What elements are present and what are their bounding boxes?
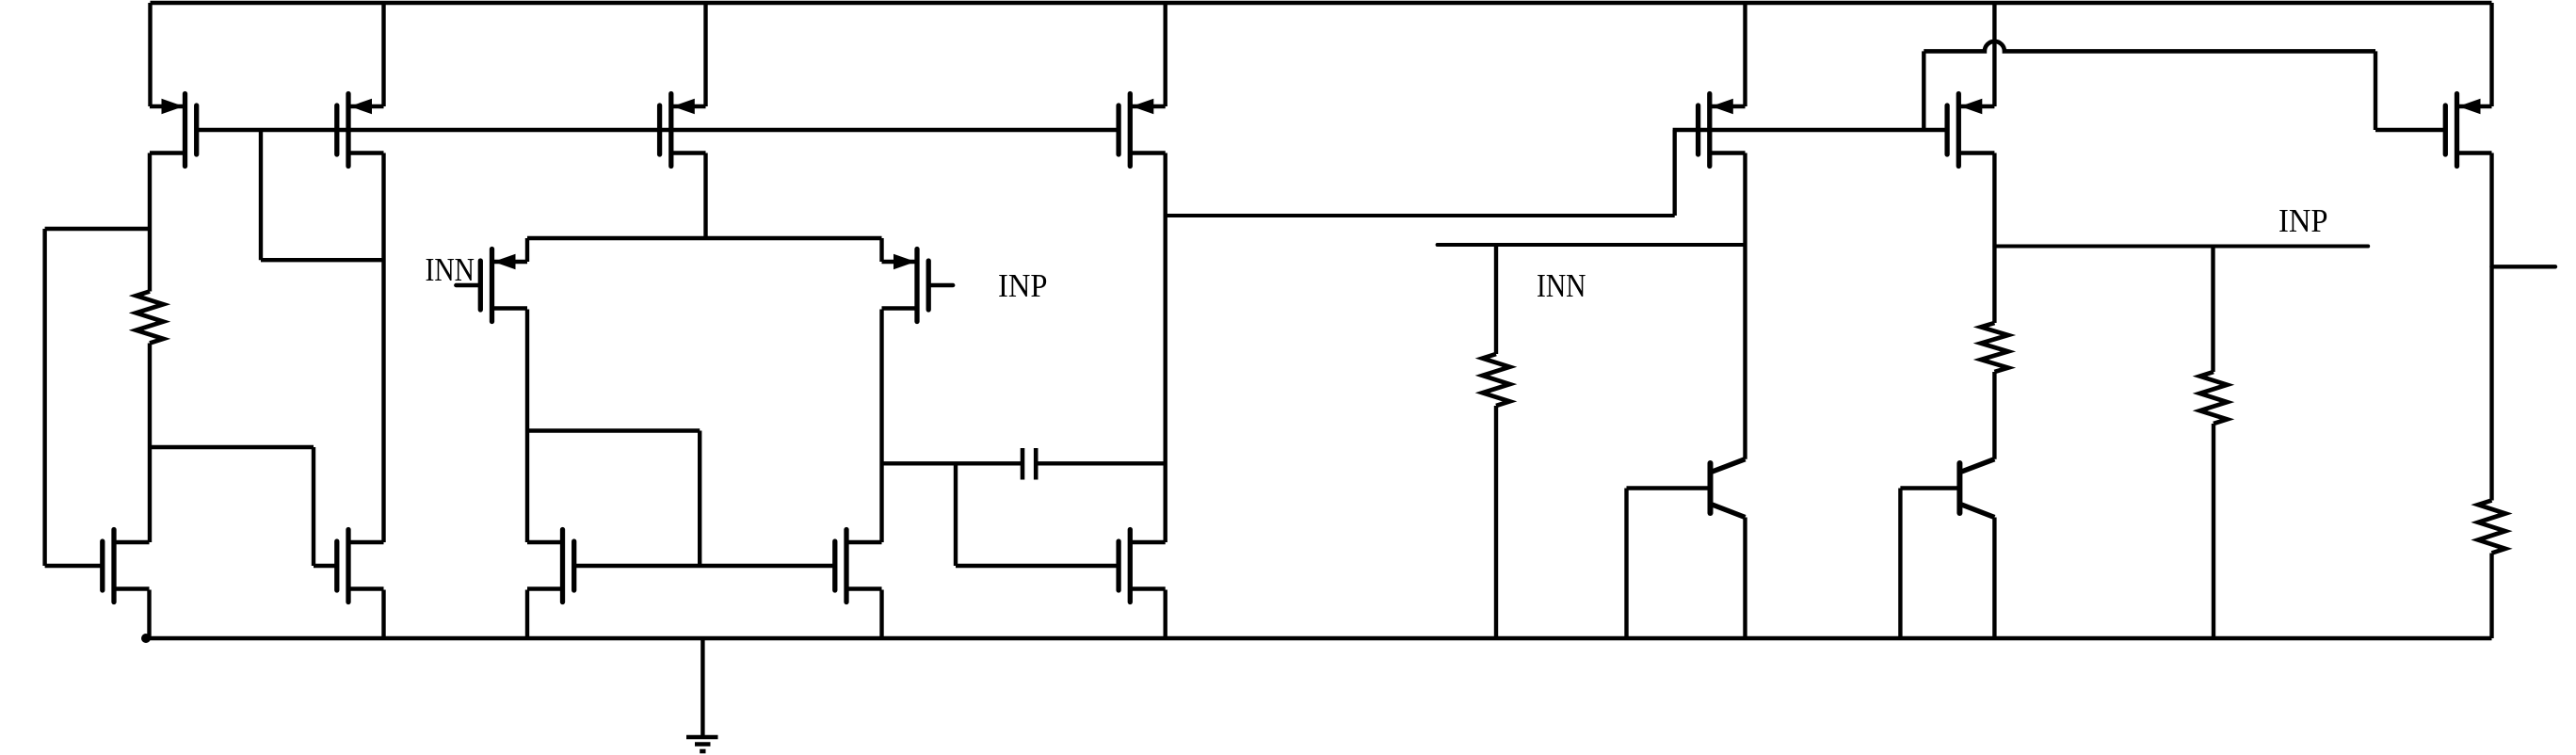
svg-text:INP: INP <box>2278 202 2328 239</box>
svg-text:INN: INN <box>426 251 475 288</box>
svg-text:INN: INN <box>1537 267 1586 304</box>
svg-text:INP: INP <box>998 267 1048 304</box>
